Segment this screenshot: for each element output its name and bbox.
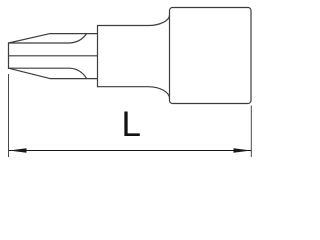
shank top edge with fillet into body (98, 15, 170, 26)
left extension line (8, 74, 10, 157)
right arrowhead (234, 148, 252, 152)
shank left edge (97, 26, 99, 87)
shank bottom edge with fillet into body (98, 87, 170, 99)
bit top taper and top edge (9, 34, 98, 43)
bit bottom flute line (9, 68, 87, 78)
bit bottom taper and bottom edge (9, 68, 98, 78)
bit center line (9, 55, 98, 57)
left arrowhead (9, 148, 27, 152)
bit tip left vertical edge (8, 43, 10, 68)
bit top flute line (9, 34, 87, 43)
socket body rounded rectangle (170, 8, 252, 104)
right extension line (250, 106, 252, 158)
dimension line (9, 150, 251, 152)
svg-text:L: L (121, 105, 140, 144)
